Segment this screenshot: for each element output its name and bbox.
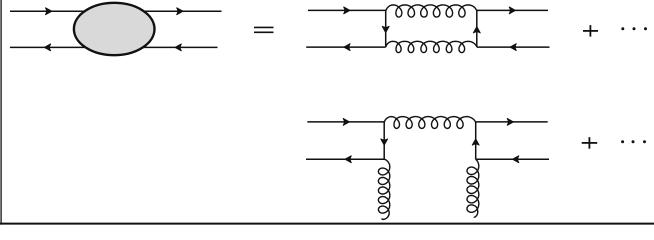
arrow row1 top-right — [509, 7, 516, 14]
wire: row1 right vertical fermion — [476, 10, 478, 47]
wire: left diagram bottom fermion line — [10, 46, 218, 48]
gluon: row1 bottom — [386, 41, 477, 52]
arrow row2 bottom-left — [345, 156, 352, 163]
bottom border line — [0, 223, 654, 225]
wire: row1 top-right fermion line — [477, 9, 548, 11]
gluon: row1 top — [386, 5, 477, 17]
arrow row1 left vertical (down) — [382, 26, 389, 32]
equals sign — [254, 27, 274, 32]
arrow row2 bottom-right — [513, 156, 520, 163]
blob (shaded ellipse) — [74, 3, 155, 55]
wire: left diagram top fermion line — [10, 10, 222, 12]
dots row2 — [621, 140, 646, 143]
gluon: row2 left radiated (vertical) — [378, 159, 389, 219]
arrow on bottom line (right) — [175, 44, 182, 51]
left border line — [0, 0, 2, 225]
arrow row1 right vertical (up) — [473, 27, 480, 33]
wire: row2 left vertical fermion — [383, 122, 385, 159]
wire: row2 top-right fermion line — [476, 121, 548, 123]
arrow row2 top-right — [507, 118, 514, 125]
wire: row1 bottom-right fermion line — [477, 46, 550, 48]
gluon: row2 right radiated (vertical) — [467, 159, 479, 217]
arrow row1 top-left — [344, 7, 351, 14]
arrow on top line (right) — [177, 8, 184, 15]
wire: row2 top-left fermion line — [307, 121, 384, 123]
arrow row1 bottom-left — [344, 44, 351, 51]
arrow row2 left vertical (down) — [381, 139, 388, 146]
arrow row2 top-left — [343, 118, 350, 125]
plus sign row2 — [582, 137, 598, 149]
arrow row2 right vertical (up) — [472, 139, 479, 146]
arrow row1 bottom-right — [510, 44, 517, 51]
wire: row2 bottom-right fermion line — [476, 158, 549, 160]
plus sign row1 — [583, 25, 598, 36]
arrow on bottom line (left) — [44, 44, 51, 51]
wire: row2 bottom-left fermion line — [306, 158, 384, 160]
wire: row1 top-left fermion line — [308, 9, 386, 11]
gluon: row2 horizontal — [384, 117, 476, 129]
arrow on top line (left) — [45, 8, 52, 15]
wire: row1 bottom-left fermion line — [306, 46, 386, 48]
wire: row2 right vertical fermion — [475, 122, 477, 159]
dots row1 — [621, 27, 647, 30]
wire: row1 left vertical fermion — [385, 10, 387, 47]
